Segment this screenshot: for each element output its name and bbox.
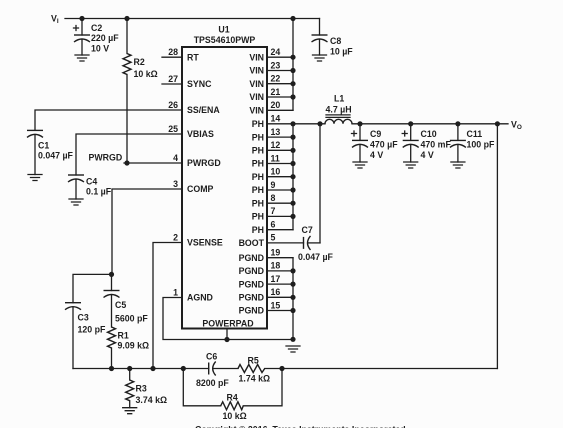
pin VIN 22 — [249, 74, 293, 89]
svg-text:16: 16 — [271, 287, 281, 297]
pin SYNC 27 — [162, 74, 212, 89]
wire COMP down to compensation node — [112, 189, 182, 274]
pin VIN 23 — [249, 60, 293, 75]
pin PH 14 — [252, 114, 281, 129]
pin PH 12 — [252, 140, 293, 155]
svg-text:0.047 µF: 0.047 µF — [38, 151, 74, 161]
svg-text:10 kΩ: 10 kΩ — [223, 411, 247, 421]
svg-text:VIN: VIN — [249, 92, 264, 102]
wire feedback from Vo rail down to bottom rail — [496, 124, 498, 369]
svg-text:1: 1 — [173, 287, 178, 297]
svg-text:PH: PH — [252, 212, 264, 222]
svg-text:PGND: PGND — [239, 253, 264, 263]
svg-text:9.09 kΩ: 9.09 kΩ — [118, 341, 150, 351]
svg-text:SYNC: SYNC — [187, 79, 212, 89]
wire R4 branch right — [243, 369, 282, 406]
svg-text:VIN: VIN — [249, 79, 264, 89]
svg-text:0.047 µF: 0.047 µF — [298, 252, 334, 262]
svg-text:28: 28 — [168, 47, 178, 57]
svg-text:C2: C2 — [91, 23, 102, 33]
wire VBIAS to C4 — [76, 134, 182, 175]
pin PH 6 — [252, 220, 293, 235]
svg-text:14: 14 — [271, 114, 281, 124]
svg-text:COMP: COMP — [187, 184, 214, 194]
wire AGND to analog ground line — [163, 298, 293, 340]
resistor R1 — [108, 327, 150, 369]
svg-text:C11: C11 — [467, 129, 483, 139]
svg-text:11: 11 — [271, 153, 280, 163]
ground (PGND) — [286, 346, 300, 352]
svg-text:PWRGD: PWRGD — [187, 158, 221, 168]
svg-text:U1: U1 — [218, 25, 229, 35]
svg-text:C10: C10 — [421, 129, 437, 139]
svg-text:9: 9 — [271, 180, 276, 190]
svg-text:VIN: VIN — [249, 106, 264, 116]
svg-text:120 pF: 120 pF — [78, 325, 106, 335]
svg-text:27: 27 — [168, 74, 178, 84]
svg-text:3.74 kΩ: 3.74 kΩ — [136, 395, 168, 405]
ground (C10) — [404, 162, 418, 168]
capacitor C5 — [104, 274, 149, 327]
svg-text:24: 24 — [271, 47, 281, 57]
svg-text:R1: R1 — [118, 331, 129, 341]
svg-text:VIN: VIN — [249, 66, 264, 76]
svg-text:470 µF: 470 µF — [370, 140, 398, 150]
svg-text:PH: PH — [252, 132, 264, 142]
svg-text:2: 2 — [173, 232, 178, 242]
pin PWRGD 4 — [173, 153, 221, 168]
capacitor C1 — [27, 130, 74, 174]
svg-text:21: 21 — [271, 87, 281, 97]
svg-text:7: 7 — [271, 206, 276, 216]
svg-text:6: 6 — [271, 220, 276, 230]
svg-text:100 pF: 100 pF — [467, 140, 495, 150]
ground (C1) — [28, 175, 42, 181]
wire POWERPAD down — [226, 329, 228, 340]
ground (C2) — [75, 55, 89, 61]
svg-text:VIN: VIN — [249, 52, 264, 62]
pin PGND 15 — [239, 300, 293, 315]
pin PGND 16 — [239, 287, 293, 302]
svg-text:PGND: PGND — [239, 293, 264, 303]
svg-text:12: 12 — [271, 140, 281, 150]
pin SS/ENA 26 — [168, 100, 220, 115]
wire bottom rail left segment — [73, 368, 209, 370]
wire node to C3 branch — [73, 274, 112, 302]
svg-text:R3: R3 — [136, 384, 147, 394]
svg-text:POWERPAD: POWERPAD — [202, 319, 253, 329]
wire VIN bus — [292, 19, 294, 111]
svg-text:R2: R2 — [134, 57, 145, 67]
pin RT 28 — [162, 47, 199, 62]
capacitor C2 — [74, 19, 120, 56]
inductor L1 — [325, 94, 352, 124]
svg-text:C6: C6 — [206, 352, 217, 362]
svg-text:PH: PH — [252, 185, 264, 195]
wire PH rail pin14 to L1 — [267, 123, 325, 125]
svg-text:26: 26 — [168, 100, 178, 110]
svg-text:15: 15 — [271, 300, 281, 310]
svg-text:10: 10 — [271, 167, 281, 177]
svg-text:4 V: 4 V — [421, 150, 434, 160]
svg-text:4: 4 — [173, 153, 178, 163]
pin AGND 1 — [173, 287, 213, 302]
svg-text:PGND: PGND — [239, 279, 264, 289]
svg-text:C7: C7 — [302, 225, 313, 235]
wire PH bus — [292, 124, 294, 230]
wire C7 riser to PH rail — [319, 124, 321, 243]
svg-text:Copyright © 2016, Texas Instru: Copyright © 2016, Texas Instruments Inco… — [195, 425, 406, 428]
svg-text:PGND: PGND — [239, 306, 264, 316]
svg-text:20: 20 — [271, 100, 281, 110]
resistor R5 — [238, 356, 497, 384]
svg-text:R5: R5 — [248, 356, 259, 366]
pin COMP 3 — [173, 179, 213, 194]
node Vo — [511, 120, 522, 132]
node Vi — [51, 14, 59, 26]
ground (C11) — [451, 162, 465, 168]
pin PH 9 — [252, 180, 293, 195]
svg-text:AGND: AGND — [187, 293, 213, 303]
svg-text:C8: C8 — [330, 36, 341, 46]
ground (C8) — [313, 55, 327, 61]
svg-text:VSENSE: VSENSE — [187, 238, 223, 248]
svg-text:BOOT: BOOT — [239, 238, 265, 248]
svg-text:TPS54610PWP: TPS54610PWP — [194, 35, 256, 45]
svg-text:5600 pF: 5600 pF — [115, 314, 148, 324]
pin PGND 17 — [239, 274, 293, 289]
svg-text:220 µF: 220 µF — [91, 33, 119, 43]
pin PH 8 — [252, 193, 293, 208]
svg-text:470 mF: 470 mF — [421, 140, 452, 150]
svg-text:18: 18 — [271, 261, 281, 271]
IC U1 TPS54610PWP body — [182, 25, 267, 329]
capacitor C7 — [267, 225, 334, 262]
node PWRGD label and wire — [89, 153, 183, 164]
capacitor C10 — [402, 124, 451, 162]
pin PGND 19 — [239, 248, 293, 263]
wire top rail from Vi to C8 corner — [65, 18, 320, 20]
ground (R3) — [123, 408, 137, 414]
ground (C4) — [69, 199, 83, 205]
svg-text:PH: PH — [252, 198, 264, 208]
svg-text:1.74 kΩ: 1.74 kΩ — [239, 374, 271, 384]
pin VIN 20 — [249, 100, 293, 115]
svg-text:23: 23 — [271, 60, 281, 70]
wire VSENSE down to bottom rail — [153, 243, 182, 369]
resistor R2 — [123, 19, 158, 164]
wire PGND bus — [292, 258, 294, 340]
capacitor C6 — [196, 352, 238, 389]
wire Vo rail — [352, 123, 508, 125]
ground (C9) — [353, 162, 367, 168]
svg-text:C5: C5 — [115, 300, 126, 310]
resistor R3 — [126, 369, 167, 408]
svg-text:PH: PH — [252, 225, 264, 235]
svg-text:0.1 µF: 0.1 µF — [86, 187, 112, 197]
pin PH 13 — [252, 127, 293, 142]
capacitor C11 — [450, 124, 495, 162]
svg-text:C4: C4 — [86, 177, 97, 187]
svg-text:PH: PH — [252, 119, 264, 129]
svg-text:C9: C9 — [370, 129, 381, 139]
pin VSENSE 2 — [173, 232, 223, 247]
pin BOOT 5 — [239, 233, 276, 248]
svg-text:5: 5 — [271, 233, 276, 243]
svg-text:RT: RT — [187, 52, 199, 62]
wire SS/ENA to C1 — [35, 110, 182, 130]
svg-text:VBIAS: VBIAS — [187, 129, 214, 139]
pin PGND 18 — [239, 261, 293, 276]
svg-text:22: 22 — [271, 74, 281, 84]
pin VIN 21 — [249, 87, 293, 102]
svg-text:10 µF: 10 µF — [330, 47, 353, 57]
svg-text:13: 13 — [271, 127, 281, 137]
svg-text:SS/ENA: SS/ENA — [187, 105, 220, 115]
svg-text:25: 25 — [168, 124, 178, 134]
capacitor C8 — [312, 19, 354, 57]
wire R4 branch left — [183, 369, 220, 406]
svg-text:C1: C1 — [38, 141, 49, 151]
svg-text:4.7 µH: 4.7 µH — [326, 105, 352, 115]
svg-text:17: 17 — [271, 274, 281, 284]
svg-text:L1: L1 — [334, 94, 344, 104]
svg-text:PWRGD: PWRGD — [89, 153, 123, 163]
pin PH 7 — [252, 206, 293, 221]
resistor R4 — [221, 393, 247, 422]
svg-text:3: 3 — [173, 179, 178, 189]
svg-text:PH: PH — [252, 146, 264, 156]
svg-text:C3: C3 — [78, 313, 89, 323]
svg-text:8200 pF: 8200 pF — [196, 378, 229, 388]
capacitor C3 — [65, 303, 106, 369]
svg-text:PGND: PGND — [239, 266, 264, 276]
svg-text:PH: PH — [252, 159, 264, 169]
pin PH 10 — [252, 167, 293, 182]
svg-text:R4: R4 — [227, 393, 238, 403]
svg-text:PH: PH — [252, 172, 264, 182]
capacitor C4 — [68, 175, 112, 199]
pin PH 11 — [252, 153, 293, 168]
svg-text:4 V: 4 V — [370, 150, 383, 160]
svg-text:10 V: 10 V — [91, 44, 109, 54]
capacitor C9 — [352, 124, 399, 162]
svg-text:10 kΩ: 10 kΩ — [134, 69, 158, 79]
svg-text:19: 19 — [271, 248, 281, 258]
svg-text:8: 8 — [271, 193, 276, 203]
pin VBIAS 25 — [168, 124, 214, 139]
pin VIN 24 — [249, 47, 293, 62]
